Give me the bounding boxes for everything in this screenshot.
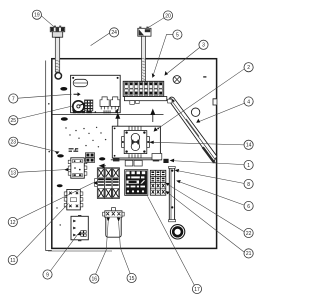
buzzer: [73, 101, 84, 112]
svg-text:8: 8: [247, 182, 250, 188]
small dash near right: [203, 76, 206, 77]
svg-text:15: 15: [129, 276, 135, 282]
leader 17: [148, 196, 195, 285]
core hatch top/bottom: [129, 126, 141, 130]
svg-text:4: 4: [247, 99, 250, 105]
leader 4: [199, 103, 245, 122]
svg-text:3: 3: [202, 43, 205, 49]
terminal strip item5: [123, 81, 172, 104]
relay outline B on pcb: [111, 97, 120, 110]
leader 13: [18, 170, 65, 173]
box item9: [71, 215, 88, 241]
svg-text:1: 1: [247, 163, 250, 169]
sensor 20 head: [138, 27, 151, 37]
sensor 19 rod: [55, 38, 59, 74]
pcb bottom pin dashes: [73, 110, 118, 113]
svg-text:21: 21: [246, 251, 252, 257]
svg-text:23: 23: [11, 140, 17, 146]
svg-text:24: 24: [111, 30, 117, 36]
leader 1: [171, 161, 244, 165]
up arrow left of transformer top: [116, 114, 120, 126]
svg-text:13: 13: [11, 171, 17, 177]
svg-text:5: 5: [176, 32, 179, 38]
leader 9: [50, 234, 78, 271]
svg-text:16: 16: [92, 276, 98, 282]
svg-text:9: 9: [46, 272, 49, 278]
leader 12: [17, 183, 93, 220]
small dark part (item1 target): [163, 159, 168, 163]
hole in door area: [191, 108, 199, 116]
grommet ring: [170, 225, 184, 239]
keypad item22/21: [150, 170, 166, 195]
wire clip ellipses: [57, 87, 68, 187]
door support arm (diagonal bar): [169, 97, 217, 163]
svg-text:11: 11: [10, 258, 15, 264]
scattered pad dots: [48, 103, 106, 226]
leader 23: [18, 142, 56, 151]
leader 25: [18, 106, 73, 119]
strip base: [124, 97, 166, 101]
svg-text:7: 7: [12, 96, 15, 102]
leader 8: [176, 170, 244, 183]
leader 5: [152, 34, 172, 77]
leader 2: [156, 69, 244, 130]
contactor item12: [95, 168, 120, 199]
sensor 20 rod: [142, 36, 146, 82]
capacitor items15/16: [103, 208, 125, 238]
stadium oval component: [73, 79, 87, 86]
relay item13: [68, 158, 87, 178]
svg-text:17: 17: [194, 287, 200, 293]
svg-text:19: 19: [34, 13, 40, 19]
transformer item14: [111, 126, 162, 161]
leader 3: [165, 47, 200, 75]
svg-text:20: 20: [165, 13, 171, 19]
leader 7: [18, 94, 72, 98]
bobbin block: [124, 131, 147, 154]
relay item11: [64, 190, 83, 210]
leader 20: [147, 18, 165, 29]
PCB item7: [71, 75, 121, 113]
relay outline A on pcb: [100, 97, 109, 110]
leader 19: [41, 16, 54, 27]
cursor arrow on pcb: [74, 92, 81, 96]
enclosure right-edge notch: [213, 99, 217, 105]
svg-text:2: 2: [247, 65, 250, 71]
enclosure main panel outline: [52, 59, 217, 249]
up arrow right of transformer top: [151, 110, 155, 122]
screw hole top right: [173, 76, 181, 84]
leader 16: [96, 222, 109, 275]
leader 11: [17, 203, 69, 257]
enclosure left flange: [46, 61, 52, 251]
sensor 19 head: [50, 26, 65, 38]
svg-text:25: 25: [11, 118, 17, 124]
leader 6: [178, 181, 244, 205]
leader 21: [167, 192, 244, 252]
twin connector right of relay13: [85, 153, 94, 163]
svg-text:14: 14: [246, 143, 252, 149]
leader 24: [91, 33, 110, 46]
svg-text:22: 22: [246, 231, 252, 237]
left arrow below transformer: [100, 164, 106, 168]
label marks above relay13: [69, 148, 79, 152]
DIN rail strip item6: [169, 166, 176, 221]
svg-text:12: 12: [10, 220, 16, 226]
enclosure interior fold line: [52, 114, 164, 116]
leader 22: [167, 184, 244, 232]
enclosure bottom inner line: [48, 250, 112, 252]
svg-text:6: 6: [247, 204, 250, 210]
leader 15: [119, 222, 131, 274]
pin block at bar end: [84, 100, 93, 112]
connector boxes above dark board: [125, 160, 133, 166]
wire marker ellipse right of contactor: [99, 157, 105, 160]
leader 14: [150, 142, 244, 145]
sensor 19 bulb end: [55, 73, 61, 79]
leader arrowheads: [55, 71, 200, 235]
dark controller board item17: [124, 169, 148, 196]
